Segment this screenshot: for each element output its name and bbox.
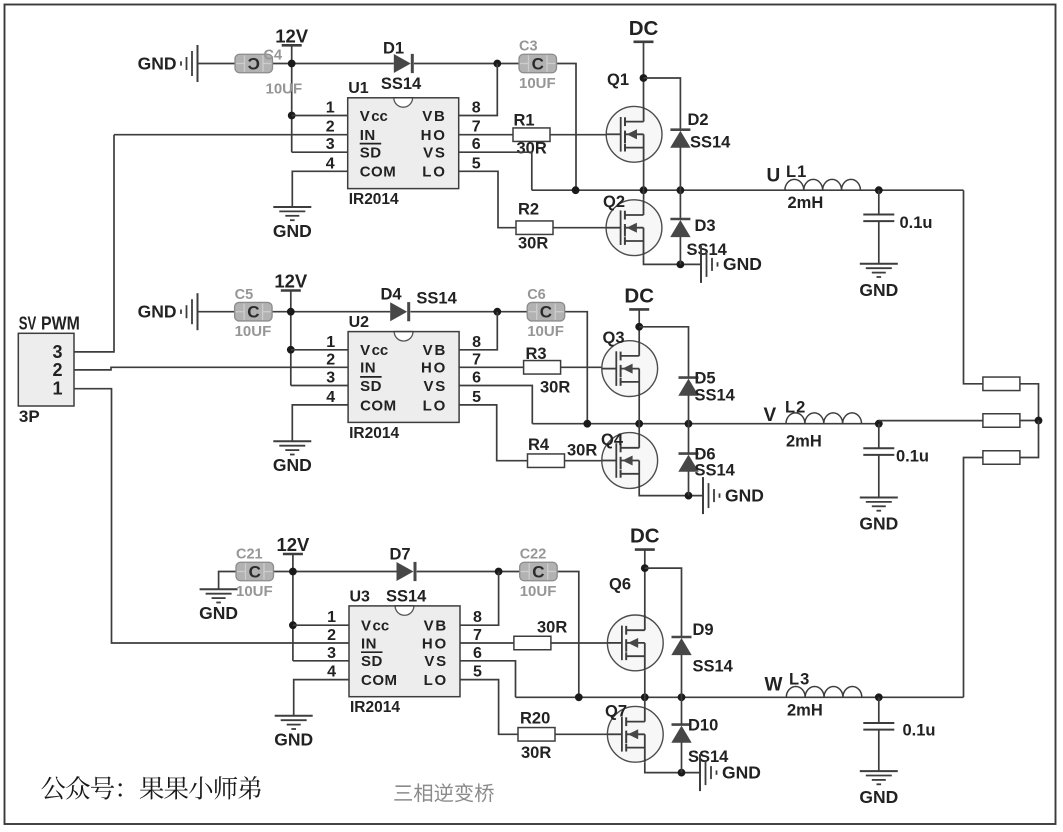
svg-text:2: 2: [52, 360, 62, 380]
wire HO wire U3 to gate resistor: [460, 642, 514, 644]
svg-text:SD: SD: [361, 653, 383, 670]
diode D2: [670, 130, 690, 148]
svg-text:2mH: 2mH: [786, 433, 822, 451]
svg-text:C: C: [247, 303, 259, 322]
diode D6: [678, 454, 698, 472]
wire VS wire U1: [459, 152, 532, 190]
wire COM pin wire U1: [292, 171, 347, 207]
wire 12V riser channel 2: [290, 291, 292, 386]
svg-text:SS14: SS14: [695, 462, 736, 480]
resistor R1: [513, 128, 550, 142]
svg-text:V: V: [764, 405, 777, 426]
svg-text:V: V: [360, 108, 370, 125]
svg-text:VB: VB: [423, 342, 447, 359]
svg-text:V: V: [360, 342, 370, 359]
junction C3-VS: [572, 186, 580, 194]
svg-text:D2: D2: [688, 111, 709, 129]
svg-text:4: 4: [327, 664, 336, 681]
transistor Q4: [602, 433, 658, 489]
junction 12V-C4 channel 1: [288, 60, 296, 68]
wire W rail to star bottom resistor: [964, 458, 983, 698]
svg-text:12V: 12V: [276, 534, 310, 555]
wire Q2 source to GND rail: [644, 256, 701, 265]
svg-text:R1: R1: [514, 112, 535, 130]
svg-text:Q7: Q7: [605, 703, 627, 721]
junction Q3 source / Q4 drain: [635, 420, 643, 428]
svg-text:C: C: [532, 55, 544, 74]
ground GND at U2 COM: [273, 441, 312, 475]
wire D3 cathode to U rail: [679, 190, 681, 219]
op-amp U3 IR2014 gate driver body: [349, 606, 460, 697]
wire DC branch to D9: [645, 568, 682, 637]
svg-text:0.1u: 0.1u: [896, 448, 929, 466]
svg-text:GND: GND: [859, 280, 898, 300]
svg-text:4: 4: [326, 389, 335, 406]
svg-text:2: 2: [326, 119, 335, 136]
wire VS wire U3: [460, 661, 516, 698]
svg-text:L2: L2: [785, 399, 806, 417]
svg-text:C: C: [532, 563, 544, 582]
diode D7: [397, 562, 416, 581]
svg-text:cc: cc: [372, 342, 389, 359]
svg-text:HO: HO: [422, 635, 448, 652]
transistor Q7: [607, 706, 663, 762]
ground GND at U3 COM: [274, 716, 313, 750]
svg-text:D3: D3: [695, 217, 716, 235]
svg-text:C22: C22: [520, 547, 547, 563]
svg-text:GND: GND: [725, 485, 764, 505]
wire DC to Q1 drain: [643, 42, 645, 122]
wire SVPWM pin 2 to U2 IN: [74, 367, 348, 370]
svg-text:Q1: Q1: [607, 71, 629, 89]
node U phase rail: [532, 189, 964, 191]
junction 12V-C5 channel 2: [287, 308, 295, 316]
wire D10 cathode to W rail: [681, 697, 683, 724]
svg-text:5: 5: [473, 664, 482, 681]
diode D1: [394, 54, 413, 73]
wire 12V rail channel 1 after D1: [414, 63, 519, 65]
svg-text:8: 8: [472, 100, 481, 117]
svg-text:LO: LO: [424, 672, 448, 689]
svg-text:L3: L3: [789, 671, 810, 689]
svg-text:C5: C5: [235, 287, 254, 303]
svg-text:GND: GND: [199, 603, 238, 623]
svg-text:8: 8: [472, 334, 481, 351]
svg-text:VS: VS: [423, 145, 447, 162]
wire R20 to Q7 gate: [555, 733, 622, 735]
wire 12V riser channel 3: [292, 554, 294, 661]
resistor star resistor W: [983, 451, 1020, 465]
wire 12V rail channel 1: [198, 63, 394, 65]
wire R2 to Q2 gate: [553, 227, 621, 229]
wire LO wire U3 to R20: [460, 680, 518, 735]
wire SVPWM pin 3 to U1 IN: [74, 135, 114, 352]
ground GND2 (input side): [138, 293, 198, 330]
junction star node: [1035, 417, 1043, 425]
pin numbers of U1: [326, 100, 481, 173]
svg-text:30R: 30R: [540, 379, 570, 397]
op-amp U2 IR2014 gate driver body: [348, 332, 459, 423]
capacitor C3: [519, 54, 557, 73]
wire DC to Q6 drain: [644, 550, 646, 631]
wire 12V rail channel 3 after D7: [417, 571, 520, 573]
wire 12V rail channel 3: [274, 571, 397, 573]
wire Q4 source to GND rail: [639, 488, 702, 495]
junction DC branch channel 3: [641, 564, 649, 572]
svg-text:GND: GND: [859, 787, 898, 807]
svg-text:SD: SD: [360, 378, 382, 395]
svg-text:DC: DC: [624, 284, 654, 307]
capacitor C21: [236, 562, 274, 581]
svg-text:10UF: 10UF: [266, 81, 303, 98]
junction DC branch channel 2: [635, 323, 643, 331]
svg-text:C: C: [248, 55, 260, 74]
transistor Q6: [607, 615, 663, 671]
power 12V channel 2: [274, 271, 308, 292]
wire Q2 drain from U rail: [643, 190, 645, 200]
svg-text:30R: 30R: [567, 442, 597, 460]
wire R4 to Q4 gate: [565, 460, 617, 462]
svg-text:R4: R4: [528, 436, 550, 454]
svg-text:10UF: 10UF: [236, 583, 273, 600]
wire LO wire U2 to R4: [459, 405, 527, 461]
svg-text:C4: C4: [264, 48, 283, 64]
svg-text:GND: GND: [138, 53, 177, 73]
svg-text:GND: GND: [273, 221, 312, 241]
pin numbers of SVPWM: [52, 342, 62, 399]
resistor R20: [518, 728, 555, 742]
junction Vcc channel 1: [288, 112, 296, 120]
ground GND channel 3 power: [700, 754, 761, 791]
svg-text:IR2014: IR2014: [350, 699, 400, 716]
svg-text:C6: C6: [527, 287, 546, 303]
svg-text:IN: IN: [360, 360, 376, 377]
svg-text:7: 7: [473, 627, 482, 644]
svg-text:12V: 12V: [274, 271, 308, 292]
svg-text:PWM: PWM: [41, 314, 80, 334]
junction Q2 source - D3 anode: [677, 261, 685, 269]
resistor R4: [528, 454, 565, 468]
power DC channel 3: [630, 525, 660, 550]
svg-text:SS14: SS14: [690, 134, 731, 152]
wire DC branch to D5: [639, 327, 688, 378]
svg-text:10UF: 10UF: [519, 75, 556, 92]
wire DC to Q3 drain: [638, 309, 640, 356]
wire D6 cathode to V rail: [688, 424, 690, 454]
svg-text:3P: 3P: [19, 407, 40, 426]
junction VB rail channel 1: [493, 60, 501, 68]
svg-text:SS14: SS14: [693, 658, 734, 676]
svg-text:IR2014: IR2014: [349, 425, 399, 442]
svg-text:SV: SV: [19, 314, 37, 334]
ground GND at C21: [199, 589, 238, 623]
wire Q6 source to W rail: [644, 671, 646, 698]
svg-text:SS14: SS14: [386, 588, 427, 606]
capacitor filter cap W 0.1u: [863, 723, 894, 730]
wire D2 anode to U rail: [679, 147, 681, 190]
wire SD pin wire U3: [293, 660, 349, 662]
wire star top resistor to star node: [1020, 384, 1039, 421]
wire Q4 drain from V rail: [638, 424, 640, 433]
node V phase rail: [532, 423, 879, 425]
svg-text:Q6: Q6: [609, 576, 631, 594]
ground GND channel 1 power: [701, 246, 762, 283]
diode D4: [390, 302, 409, 321]
svg-text:GND: GND: [274, 730, 313, 750]
wire R1 to Q1 gate: [550, 134, 621, 136]
svg-text:2mH: 2mH: [788, 194, 824, 212]
wire U rail to star top resistor: [964, 190, 983, 384]
resistor R gate Q6: [514, 636, 551, 650]
diode D3: [670, 219, 690, 237]
junction L2 out: [875, 420, 883, 428]
svg-text:COM: COM: [361, 672, 398, 689]
junction C6-VS: [583, 420, 591, 428]
svg-text:U3: U3: [350, 588, 371, 605]
wire star middle resistor to star node: [1020, 420, 1039, 422]
caption 三相逆变桥: [394, 783, 494, 802]
inductor L3: [786, 687, 862, 698]
svg-text:1: 1: [326, 100, 335, 117]
svg-text:VB: VB: [422, 108, 446, 125]
junction D9-D10 node: [678, 693, 686, 701]
svg-text:D9: D9: [693, 621, 714, 639]
svg-text:C: C: [249, 563, 261, 582]
svg-text:1: 1: [326, 334, 335, 351]
junction Q6 source / Q7 drain: [641, 693, 649, 701]
wire LO wire U1 to R2: [459, 171, 516, 227]
svg-text:COM: COM: [360, 397, 397, 414]
junction L3 out: [875, 693, 883, 701]
svg-text:DC: DC: [630, 525, 660, 548]
svg-text:C21: C21: [236, 547, 263, 563]
junction VB rail channel 2: [493, 308, 501, 316]
svg-text:GND: GND: [723, 254, 762, 274]
svg-text:SS14: SS14: [381, 75, 422, 93]
svg-text:VS: VS: [424, 653, 448, 670]
svg-text:W: W: [765, 675, 783, 696]
svg-text:D1: D1: [383, 40, 404, 58]
svg-text:3: 3: [327, 645, 336, 662]
svg-text:LO: LO: [423, 397, 447, 414]
resistor R3: [524, 361, 561, 375]
svg-text:Q4: Q4: [601, 431, 624, 449]
svg-text:HO: HO: [421, 127, 447, 144]
svg-text:10UF: 10UF: [520, 583, 557, 600]
svg-text:30R: 30R: [537, 619, 567, 637]
svg-text:IN: IN: [361, 635, 377, 652]
svg-text:5: 5: [472, 155, 481, 172]
resistor star resistor U: [983, 377, 1020, 391]
wire C21 ground lead: [219, 572, 236, 590]
svg-text:1: 1: [52, 379, 62, 399]
capacitor C4: [235, 54, 273, 73]
pin labels of U1: [360, 108, 447, 181]
wire R3 to Q3 gate: [561, 366, 617, 368]
wire 12V rail channel 2: [198, 311, 391, 313]
svg-text:30R: 30R: [518, 235, 548, 253]
wire Vcc pin wire U3: [293, 624, 349, 626]
svg-text:8: 8: [473, 609, 482, 626]
wire VS wire U2: [459, 386, 532, 424]
wire SVPWM pin 1 to U3 IN: [74, 389, 349, 643]
junction VB rail channel 3: [495, 568, 503, 576]
svg-text:2mH: 2mH: [787, 702, 823, 720]
ground GND channel 2 power: [703, 477, 764, 514]
junction C22-VS: [575, 693, 583, 701]
junction D2-D3 node: [677, 186, 685, 194]
ground GND filter U: [859, 264, 898, 300]
wire HO wire U2 to R3: [459, 366, 523, 368]
power 12V channel 1: [275, 25, 309, 46]
op-amp U1 IR2014 gate driver body: [348, 98, 459, 189]
svg-text:D4: D4: [380, 286, 402, 304]
transistor Q3: [602, 341, 658, 397]
junction D5-D6 node: [685, 420, 693, 428]
svg-text:D7: D7: [389, 546, 410, 564]
capacitor C22: [520, 562, 558, 581]
svg-text:GND: GND: [273, 455, 312, 475]
power 12V channel 3: [276, 534, 310, 555]
junction Vcc channel 3: [289, 621, 297, 629]
svg-text:SD: SD: [360, 145, 382, 162]
wire D5 anode to V rail: [688, 395, 690, 423]
svg-text:VB: VB: [424, 618, 448, 635]
wire V rail to filter cap: [878, 424, 880, 449]
svg-text:3: 3: [326, 370, 335, 387]
junction DC branch channel 1: [640, 74, 648, 82]
capacitor C5: [235, 302, 273, 321]
wire Vcc pin wire U2: [291, 349, 348, 351]
junction L1 out: [875, 186, 883, 194]
wire bootstrap wire C22 to VS node: [557, 572, 579, 698]
diode D5: [678, 378, 698, 396]
svg-text:1: 1: [327, 609, 336, 626]
svg-text:6: 6: [473, 645, 482, 662]
wire gate resistor to Q6 gate: [551, 642, 622, 644]
pin labels of U3: [361, 618, 448, 689]
wire D3 anode to GND: [679, 237, 681, 265]
wire VB riser channel 1: [348, 64, 498, 116]
svg-text:U2: U2: [349, 314, 370, 331]
inductor L2: [786, 413, 862, 424]
diode D9: [671, 637, 691, 655]
svg-text:10UF: 10UF: [235, 323, 272, 340]
power DC channel 2: [624, 284, 654, 309]
svg-text:12V: 12V: [275, 25, 309, 46]
resistor star resistor V: [983, 414, 1020, 428]
svg-text:R3: R3: [526, 345, 547, 363]
connector SVPWM 3P: [18, 333, 74, 406]
wire SD pin wire U2: [291, 385, 348, 387]
wire D9 anode to W rail: [681, 655, 683, 698]
junction Q1 source / Q2 drain: [640, 186, 648, 194]
svg-text:D10: D10: [688, 717, 718, 735]
svg-text:cc: cc: [371, 108, 388, 125]
wire Q3 source to V rail: [638, 397, 640, 424]
svg-text:V: V: [361, 618, 371, 635]
wire filter cap V to ground: [878, 455, 880, 498]
svg-text:6: 6: [472, 370, 481, 387]
svg-text:Q2: Q2: [603, 193, 625, 211]
diode D10: [671, 725, 691, 743]
ground GND filter W: [859, 771, 898, 807]
wire filter cap U to ground: [878, 221, 880, 264]
wire Vcc pin wire U1: [292, 115, 348, 117]
svg-text:LO: LO: [422, 164, 446, 181]
pin labels of U2: [360, 342, 447, 414]
caption 公众号：果果小师弟: [41, 776, 261, 799]
wire U rail to filter cap: [878, 190, 880, 214]
transistor Q2: [606, 200, 662, 256]
wire Q7 source to GND rail: [645, 762, 699, 772]
wire COM pin wire U2: [292, 405, 348, 441]
wire VB riser channel 3: [349, 572, 499, 626]
capacitor filter cap V 0.1u: [863, 448, 894, 455]
wire V rail to star resistor: [879, 420, 983, 422]
wire 12V riser channel 1: [291, 45, 293, 152]
svg-text:10UF: 10UF: [527, 323, 564, 340]
svg-text:HO: HO: [421, 360, 447, 377]
svg-text:cc: cc: [373, 618, 390, 635]
resistor R2: [516, 221, 553, 235]
svg-text:IN: IN: [360, 127, 376, 144]
wire D6 anode to GND: [688, 471, 690, 495]
wire bootstrap wire C6 to VS node: [565, 312, 588, 424]
junction Q7 source - D10 anode: [678, 769, 686, 777]
pin numbers of U3: [327, 609, 482, 680]
power DC channel 1: [629, 17, 659, 42]
ground GND filter V: [859, 498, 898, 534]
node W phase rail: [516, 696, 964, 698]
svg-text:C3: C3: [519, 39, 538, 55]
svg-text:6: 6: [472, 136, 481, 153]
junction Q4 source - D6 anode: [685, 492, 693, 500]
wire IN pin wire U1: [114, 134, 348, 136]
svg-text:R20: R20: [520, 710, 550, 728]
pin numbers of U2: [326, 334, 481, 406]
svg-text:R2: R2: [518, 201, 539, 219]
svg-text:7: 7: [472, 351, 481, 368]
svg-text:7: 7: [472, 119, 481, 136]
ground GND1 (input side): [138, 45, 198, 82]
wire HO wire U1 to R1: [459, 134, 513, 136]
wire SD pin wire U1: [292, 151, 348, 153]
wire D10 anode to GND: [681, 742, 683, 772]
svg-text:IR2014: IR2014: [349, 191, 399, 208]
inductor L1: [785, 179, 861, 190]
svg-text:2: 2: [326, 351, 335, 368]
junction 12V-C21 channel 3: [289, 568, 297, 576]
svg-text:U: U: [767, 166, 781, 187]
svg-text:30R: 30R: [521, 744, 551, 762]
wire Q7 drain from W rail: [644, 697, 646, 706]
wire W rail to filter cap: [878, 697, 880, 723]
svg-text:L1: L1: [786, 163, 807, 181]
wire filter cap W to ground: [878, 730, 880, 772]
svg-text:U1: U1: [348, 80, 369, 97]
wire VB riser channel 2: [348, 312, 497, 350]
ground GND at U1 COM: [273, 207, 312, 241]
svg-text:C: C: [540, 303, 552, 322]
capacitor C6: [527, 302, 565, 321]
svg-text:0.1u: 0.1u: [903, 721, 936, 739]
wire bootstrap wire C3 to VS node: [557, 64, 577, 191]
capacitor filter cap U 0.1u: [863, 215, 894, 222]
wire DC branch to D2: [644, 78, 681, 130]
wire COM pin wire U3: [294, 680, 349, 716]
wire 12V rail channel 2 after D4: [410, 311, 527, 313]
